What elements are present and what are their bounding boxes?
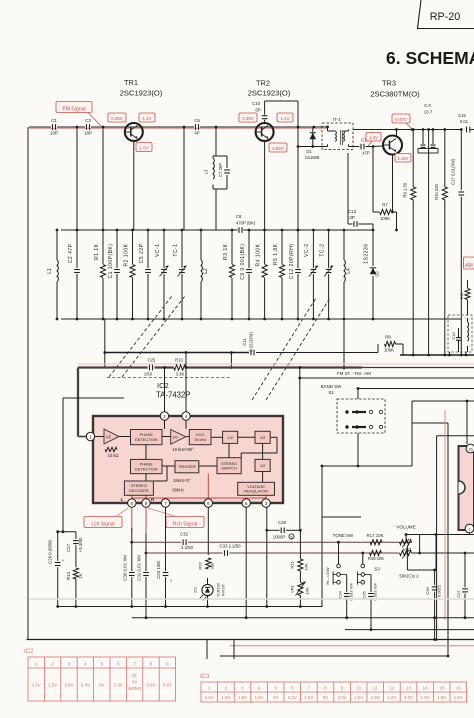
svg-text:DETECTION: DETECTION [135, 437, 158, 442]
svg-text:5: 5 [245, 501, 248, 506]
svg-text:7: 7 [164, 501, 167, 506]
svg-text:C11: C11 [242, 338, 247, 346]
svg-text:HI↔LOW: HI↔LOW [325, 567, 330, 584]
svg-text:3.0V: 3.0V [338, 695, 347, 700]
svg-text:VC-2: VC-2 [304, 244, 310, 257]
svg-text:C29 1/50: C29 1/50 [156, 561, 161, 579]
svg-text:10: 10 [356, 685, 361, 690]
svg-text:6. SCHEMAT: 6. SCHEMAT [386, 48, 474, 68]
svg-text:IC2: IC2 [157, 381, 169, 390]
svg-text:L: L [121, 497, 124, 502]
svg-text:1000P: 1000P [273, 535, 286, 540]
svg-text:+3.3/50: +3.3/50 [78, 537, 83, 552]
svg-text:C17 0.01(XM): C17 0.01(XM) [451, 158, 456, 185]
svg-text:1/50: 1/50 [144, 372, 153, 377]
svg-text:R15: R15 [290, 561, 295, 569]
svg-text:C32: C32 [180, 532, 188, 537]
svg-text:VR1: VR1 [290, 584, 295, 593]
svg-text:0.033 XM: 0.033 XM [373, 583, 378, 600]
svg-text:C9 0.001(BK): C9 0.001(BK) [240, 244, 246, 280]
svg-text:10P: 10P [50, 131, 58, 136]
svg-text:C1: C1 [51, 118, 57, 123]
svg-text:14: 14 [423, 685, 428, 690]
svg-text:1/2: 1/2 [260, 463, 266, 468]
svg-text:R7: R7 [382, 203, 388, 208]
svg-text:2.3V: 2.3V [48, 683, 57, 688]
svg-text:38kHz: 38kHz [172, 488, 184, 493]
svg-text:TC-1: TC-1 [173, 244, 179, 257]
svg-text:1.5V: 1.5V [304, 695, 313, 700]
svg-text:0.6V: 0.6V [163, 683, 172, 688]
svg-text:R11: R11 [459, 292, 464, 300]
svg-text:C28: C28 [278, 520, 286, 525]
svg-text:C13: C13 [348, 209, 357, 214]
svg-text:2.9V: 2.9V [64, 683, 73, 688]
svg-text:C36: C36 [425, 587, 430, 595]
svg-text:1.5V: 1.5V [454, 695, 463, 700]
svg-text:16: 16 [456, 685, 461, 690]
svg-text:IC3: IC3 [200, 674, 210, 680]
svg-text:TR2: TR2 [256, 79, 270, 88]
svg-text:S3: S3 [374, 567, 380, 572]
svg-text:DC: DC [173, 435, 179, 440]
svg-text:C35: C35 [362, 591, 367, 599]
svg-text:2SC1923(O): 2SC1923(O) [248, 89, 291, 98]
svg-text:FM ST. - FM - AM: FM ST. - FM - AM [337, 371, 371, 376]
svg-text:+: + [170, 578, 173, 583]
svg-text:47P: 47P [362, 151, 370, 156]
svg-text:R8: R8 [385, 335, 391, 340]
svg-text:C27: C27 [66, 543, 71, 552]
svg-text:4: 4 [185, 414, 188, 419]
svg-text:Lch Signal: Lch Signal [91, 521, 114, 527]
svg-text:C34: C34 [337, 591, 342, 599]
svg-text:1.5V: 1.5V [205, 695, 214, 700]
svg-text:R2 100K: R2 100K [123, 243, 129, 266]
svg-text:5: 5 [291, 535, 293, 539]
svg-text:R3 1K: R3 1K [223, 243, 229, 260]
svg-text:0.35V: 0.35V [242, 116, 254, 121]
svg-text:0.47V: 0.47V [395, 117, 407, 122]
svg-text:19kHz<0°: 19kHz<0° [173, 478, 191, 483]
svg-text:L2: L2 [203, 268, 209, 274]
svg-text:FM Signal: FM Signal [62, 106, 85, 112]
svg-text:1.0V: 1.0V [139, 145, 148, 150]
svg-text:1K: 1K [78, 573, 83, 578]
svg-text:C8: C8 [236, 214, 242, 219]
svg-text:SWITCH: SWITCH [221, 465, 237, 470]
svg-text:C5 22P: C5 22P [139, 243, 145, 263]
svg-text:0.6V: 0.6V [32, 683, 41, 688]
svg-text:VOLUME: VOLUME [396, 525, 415, 530]
svg-text:10K: 10K [305, 587, 310, 594]
svg-text:D3: D3 [193, 587, 198, 593]
svg-text:R17 10K: R17 10K [366, 533, 383, 538]
svg-text:+: + [62, 558, 65, 563]
svg-text:16: 16 [468, 447, 472, 451]
svg-text:1: 1 [468, 527, 470, 531]
svg-text:3.3K: 3.3K [176, 372, 185, 377]
svg-text:12: 12 [389, 685, 394, 690]
svg-text:R1 1K: R1 1K [94, 243, 100, 260]
svg-text:1.5V: 1.5V [421, 695, 430, 700]
svg-text:AF: AF [106, 435, 112, 440]
svg-text:1.5V: 1.5V [354, 695, 363, 700]
svg-text:R4 100K: R4 100K [255, 243, 261, 266]
svg-text:MONO: MONO [128, 686, 142, 691]
svg-text:1: 1 [89, 434, 92, 439]
svg-text:RP-20: RP-20 [430, 11, 461, 23]
svg-text:3: 3 [265, 501, 268, 506]
svg-text:13: 13 [406, 685, 411, 690]
svg-text:C16: C16 [451, 332, 456, 340]
svg-text:1.4V: 1.4V [369, 135, 378, 140]
svg-text:DECODER: DECODER [129, 488, 149, 493]
svg-text:19 kHz<90°: 19 kHz<90° [172, 447, 194, 452]
svg-text:C31 0.01 XM: C31 0.01 XM [137, 555, 142, 581]
svg-text:2SC1923(O): 2SC1923(O) [120, 89, 163, 98]
svg-text:R5 1.8K: R5 1.8K [273, 243, 279, 265]
svg-text:IT-1: IT-1 [333, 117, 341, 122]
svg-text:18P: 18P [84, 131, 92, 136]
svg-text:L4: L4 [346, 268, 352, 274]
svg-text:330: 330 [210, 562, 215, 569]
svg-text:D1: D1 [306, 149, 312, 154]
svg-text:TR1: TR1 [124, 78, 138, 87]
svg-text:BAND SW: BAND SW [321, 384, 342, 389]
svg-text:D2: D2 [375, 271, 380, 277]
svg-text:1.5V: 1.5V [255, 695, 264, 700]
svg-text:1.5V: 1.5V [437, 695, 446, 700]
svg-text:L3: L3 [204, 169, 209, 174]
svg-text:2.2V: 2.2V [288, 695, 297, 700]
svg-text:8: 8 [131, 501, 134, 506]
svg-text:2.2V: 2.2V [387, 695, 396, 700]
svg-text:R18 10K: R18 10K [368, 556, 385, 561]
svg-text:R10 330: R10 330 [434, 183, 439, 200]
svg-text:C2 47P: C2 47P [68, 243, 74, 263]
svg-text:1S1588: 1S1588 [305, 155, 320, 160]
svg-text:C12 20P(RH): C12 20P(RH) [289, 244, 295, 280]
svg-text:2: 2 [163, 414, 166, 419]
svg-text:C6: C6 [194, 118, 200, 123]
svg-text:4P: 4P [194, 131, 199, 136]
svg-text:470P (BK): 470P (BK) [236, 221, 256, 226]
svg-text:TC-2: TC-2 [319, 244, 325, 257]
svg-text:R14: R14 [66, 571, 71, 580]
svg-text:L1: L1 [47, 268, 53, 274]
svg-text:C33 2.2/50: C33 2.2/50 [219, 544, 241, 549]
svg-text:1S2236: 1S2236 [364, 244, 370, 264]
svg-text:1.4V: 1.4V [280, 116, 289, 121]
svg-text:C.F.: C.F. [424, 103, 432, 108]
svg-text:TONE SW: TONE SW [333, 533, 354, 538]
svg-text:0V: 0V [132, 679, 137, 684]
svg-text:6P: 6P [255, 108, 260, 113]
svg-text:2.2/50: 2.2/50 [181, 545, 194, 550]
svg-text:6: 6 [207, 501, 210, 506]
svg-text:1.5V: 1.5V [238, 695, 247, 700]
svg-text:0.022(XM): 0.022(XM) [249, 332, 254, 352]
svg-text:ST.: ST. [132, 673, 138, 678]
svg-text:TR3: TR3 [382, 79, 396, 88]
svg-text:0V: 0V [99, 683, 104, 688]
svg-text:11: 11 [373, 685, 378, 690]
svg-text:R9 1.5K: R9 1.5K [403, 182, 408, 197]
svg-text:0.95V: 0.95V [272, 146, 284, 151]
svg-text:AM: AM [465, 263, 473, 269]
svg-text:R16: R16 [198, 562, 203, 570]
svg-text:1.15V: 1.15V [398, 156, 409, 161]
svg-text:C25: C25 [148, 358, 156, 363]
svg-text:C10: C10 [252, 101, 261, 106]
svg-text:2.3V: 2.3V [114, 683, 123, 688]
svg-text:2.5V: 2.5V [371, 695, 380, 700]
svg-text:10.7: 10.7 [424, 110, 433, 115]
svg-text:0.0022: 0.0022 [436, 584, 441, 597]
svg-text:9: 9 [145, 501, 148, 506]
svg-text:VC-1: VC-1 [155, 244, 161, 257]
svg-text:0.35V: 0.35V [111, 116, 123, 121]
svg-text:15: 15 [439, 685, 444, 690]
svg-text:Rch Signal: Rch Signal [173, 521, 197, 527]
svg-text:0.9V: 0.9V [146, 683, 155, 688]
svg-text:DETECTION: DETECTION [135, 466, 158, 471]
svg-text:C30 0.01 XM: C30 0.01 XM [122, 555, 127, 581]
svg-text:FM-ST: FM-ST [221, 583, 226, 596]
svg-text:C37: C37 [456, 590, 461, 598]
svg-text:TA-7432P: TA-7432P [156, 391, 191, 400]
svg-text:50K(C)x 2: 50K(C)x 2 [399, 574, 419, 579]
svg-text:76 kHz: 76 kHz [194, 437, 206, 442]
svg-text:1.4V: 1.4V [142, 116, 151, 121]
svg-text:C15: C15 [458, 113, 466, 118]
svg-text:REGULATOR: REGULATOR [244, 489, 268, 494]
svg-text:TRIGGER: TRIGGER [178, 464, 196, 469]
svg-text:C3: C3 [85, 118, 91, 123]
svg-text:0.01: 0.01 [460, 119, 469, 124]
svg-text:IC2: IC2 [24, 649, 34, 655]
svg-text:S2: S2 [328, 390, 334, 395]
svg-text:R13: R13 [175, 358, 183, 363]
svg-text:C7 36P: C7 36P [218, 163, 223, 177]
svg-text:1.5V: 1.5V [221, 695, 230, 700]
svg-text:0V: 0V [273, 695, 278, 700]
svg-text:100K: 100K [384, 348, 394, 353]
svg-text:0.033 XM: 0.033 XM [348, 583, 353, 600]
svg-text:C26 0.68/50: C26 0.68/50 [48, 539, 53, 563]
svg-text:1/2: 1/2 [260, 435, 266, 440]
svg-text:C1 100P(BK): C1 100P(BK) [108, 244, 114, 279]
svg-text:3P: 3P [349, 215, 354, 220]
svg-text:3.0V: 3.0V [404, 695, 413, 700]
svg-text:10K: 10K [304, 563, 309, 570]
svg-text:100K: 100K [380, 216, 390, 221]
svg-text:2SC380TM(O): 2SC380TM(O) [370, 90, 420, 99]
svg-text:0V: 0V [323, 695, 328, 700]
svg-text:2.4V: 2.4V [81, 683, 90, 688]
svg-text:10 kΩ: 10 kΩ [107, 453, 118, 458]
svg-text:1/2: 1/2 [227, 435, 233, 440]
